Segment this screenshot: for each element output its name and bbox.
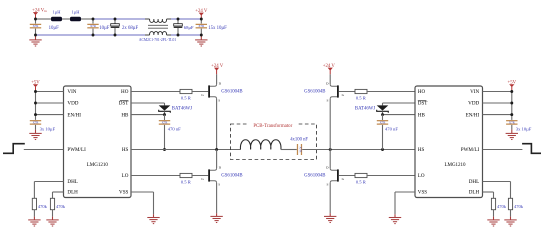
svg-text:DST: DST — [418, 101, 429, 107]
wire +24V node to C5 — [200, 19, 202, 24]
svg-text:VSS: VSS — [418, 190, 428, 196]
wire +5V vertical — [35, 92, 37, 120]
wire U2 EN/HI to +5V — [483, 114, 512, 116]
svg-text:EN/HI: EN/HI — [67, 112, 81, 118]
svg-text:X7R: X7R — [299, 147, 303, 154]
capacitor C8 3x10uF X7R right — [506, 120, 517, 125]
svg-text:PCB-Transformator: PCB-Transformator — [253, 124, 292, 129]
junction C7 HS left — [163, 148, 166, 151]
wire C7 to HS — [164, 125, 166, 150]
junction node B top — [92, 18, 95, 21]
label PCB-Transformator — [248, 122, 298, 127]
wire C10 to HS right node — [302, 149, 330, 151]
wire red stub right bypass ground — [511, 130, 513, 134]
junction node D top — [177, 18, 180, 21]
svg-text:ACM2C1-701-2PL-TL01: ACM2C1-701-2PL-TL01 — [139, 38, 176, 42]
wire L2 to node B — [81, 18, 93, 20]
svg-text:HS: HS — [418, 147, 425, 153]
wire U2 PWM/LI to input — [483, 149, 523, 151]
transistor Q4 GS61004B low-side right — [330, 168, 339, 183]
capacitor C1 10uF X7R — [30, 24, 41, 29]
svg-text:10µF: 10µF — [99, 26, 110, 31]
junction +5V VDD right — [510, 102, 513, 105]
wire DHL vertical right — [510, 182, 512, 199]
svg-text:3x 10µF: 3x 10µF — [516, 127, 532, 132]
junction Vin bottom — [34, 34, 37, 37]
svg-text:BAT46WJ: BAT46WJ — [355, 106, 375, 111]
wire Q4 drain to HS node — [329, 150, 331, 169]
capacitor C10 4x100nF series X7R — [297, 144, 298, 155]
wire U1 DST to D1 — [131, 102, 165, 104]
wire +5V to U1 VDD — [36, 102, 64, 104]
wire C5 to bottom rail — [200, 29, 202, 35]
wire top rail choke to +24V node — [171, 18, 201, 20]
wire C3 to bottom rail — [114, 28, 116, 35]
svg-text:EN/HI: EN/HI — [466, 112, 480, 118]
wire R8 to U2 LO — [367, 175, 415, 177]
svg-text:DST: DST — [119, 101, 130, 107]
wire bottom rail right section — [171, 34, 201, 36]
wire C9 to HS right — [382, 125, 384, 150]
svg-text:S: S — [218, 99, 220, 103]
inductor T1 PCB transformer winding — [240, 140, 281, 150]
svg-text:1µH: 1µH — [52, 10, 61, 15]
ground U2 VSS — [389, 218, 401, 224]
wire red stub R2 ground — [52, 217, 54, 220]
svg-text:X7R: X7R — [90, 24, 97, 28]
wire +5V to U1 EN/HI — [36, 114, 64, 116]
svg-text:X7R: X7R — [380, 120, 387, 124]
resistor R8 0.5R — [355, 173, 367, 177]
svg-text:470k: 470k — [514, 204, 524, 209]
svg-text:X7R: X7R — [198, 24, 205, 28]
wire U1 DHL to R1 — [34, 181, 63, 183]
wire +5V to U1 VIN — [36, 91, 64, 93]
wire U1 DLH to R2 — [53, 191, 64, 193]
wire VSS vertical right — [394, 192, 396, 214]
svg-text:0.5 R: 0.5 R — [181, 179, 192, 184]
wire C1 to bottom rail — [35, 29, 37, 35]
resistor R6 470k — [491, 198, 495, 209]
wire R1 to ground — [33, 210, 35, 217]
svg-text:HS: HS — [122, 147, 129, 153]
capacitor C3 2x68uF — [111, 24, 120, 28]
capacitor C5 15x10uF X7R — [196, 24, 207, 29]
wire red stub to ground left bypass — [35, 130, 37, 134]
svg-text:GS61004B: GS61004B — [304, 90, 325, 95]
svg-text:VIN: VIN — [67, 89, 76, 95]
wire HB node to C9 — [382, 115, 384, 120]
ground Q2 source — [210, 216, 222, 222]
svg-text:HO: HO — [121, 89, 129, 95]
svg-text:470 nF: 470 nF — [385, 127, 398, 132]
ground left bypass cap — [29, 133, 41, 139]
wire Q3 source to HS node — [329, 99, 331, 150]
wire R5 to ground — [510, 210, 512, 217]
wire D2 cathode to HB node right — [382, 111, 384, 114]
diode D1 BAT46WJ — [159, 105, 171, 112]
resistor R7 0.5R — [355, 89, 367, 93]
ground R6 — [487, 220, 499, 226]
svg-text:68µF: 68µF — [184, 25, 194, 30]
inductor L1 1uH — [51, 17, 62, 21]
wire PWM input to U1 PWM/LI — [24, 149, 64, 151]
junction node B bottom — [92, 34, 95, 37]
transistor Q2 GS61004B low-side left — [208, 168, 216, 183]
svg-text:LMG1210: LMG1210 — [87, 163, 109, 168]
wire Q3 gate to R7 — [339, 91, 355, 93]
wire VSS vertical left — [153, 192, 155, 214]
wire bottom rail left section — [36, 34, 146, 36]
svg-text:DLH: DLH — [67, 190, 78, 196]
svg-text:470 nF: 470 nF — [168, 127, 181, 132]
junction node C bottom — [114, 34, 117, 37]
wire R3 to Q1 gate — [192, 91, 208, 93]
node PCB transformer dashed outline — [231, 124, 317, 160]
wire U1 HB to node — [131, 114, 165, 116]
svg-text:S: S — [327, 183, 329, 187]
wire to left filter ground — [35, 35, 37, 40]
svg-text:0.5 R: 0.5 R — [356, 95, 367, 100]
svg-text:S: S — [327, 99, 329, 103]
wire U2 DLH to R6 — [483, 191, 494, 193]
wire U1 LO to R4 — [131, 175, 180, 177]
wire Vin node to L1 — [36, 18, 52, 20]
wire +5V vertical right — [511, 92, 513, 120]
wire U2 VIN to +5V — [483, 91, 512, 93]
wire R6 to ground — [493, 210, 495, 217]
svg-text:X7R: X7R — [33, 24, 40, 28]
power flag +5V left — [31, 80, 40, 87]
junction HB left — [163, 113, 166, 116]
transistor Q1 GS61004B high-side left — [208, 84, 216, 99]
wire node C to C3 — [114, 19, 116, 24]
wire U2 VSS out — [395, 191, 415, 193]
wire U1 HO to R3 — [131, 91, 180, 93]
svg-text:HB: HB — [121, 112, 129, 118]
svg-text:BAT46WJ: BAT46WJ — [172, 106, 192, 111]
node PWM input waveform left — [3, 144, 25, 154]
wire red stub R1 ground — [33, 217, 35, 220]
svg-text:3x 10µF: 3x 10µF — [40, 127, 56, 132]
svg-text:0.5 R: 0.5 R — [181, 95, 192, 100]
junction +24V top — [200, 18, 203, 21]
power flag +24V Q3 — [323, 64, 336, 71]
svg-text:1µH: 1µH — [71, 10, 80, 15]
wire Q4 source down — [329, 183, 331, 213]
resistor R5 470k — [508, 198, 512, 209]
wire node D to C4 — [177, 19, 179, 24]
svg-text:DHL: DHL — [469, 179, 479, 185]
svg-text:0.5 R: 0.5 R — [356, 179, 367, 184]
wire to right filter ground — [200, 35, 202, 40]
resistor R2 470k — [50, 198, 54, 209]
junction HS Q3 Q4 right — [329, 148, 332, 151]
junction +5V EN/HI right — [510, 113, 513, 116]
junction HB right — [381, 113, 384, 116]
wire red stub VSS left — [153, 214, 155, 217]
overline on U2 DST pin label — [418, 99, 427, 101]
svg-text:GS61004B: GS61004B — [304, 174, 325, 179]
svg-text:VDD: VDD — [468, 101, 479, 107]
wire red stub VSS right — [394, 214, 396, 217]
wire red stub R6 ground — [493, 217, 495, 220]
power flag +5V right — [508, 80, 517, 87]
junction HS Q1 Q2 left — [215, 148, 218, 151]
svg-text:470k: 470k — [38, 204, 48, 209]
wire U1 VSS out — [131, 191, 154, 193]
svg-text:15x 10µF: 15x 10µF — [208, 26, 227, 31]
svg-text:LO: LO — [418, 173, 425, 179]
svg-text:GS61004B: GS61004B — [221, 90, 242, 95]
resistor R1 470k — [32, 198, 36, 209]
ground R1 — [28, 220, 40, 226]
diode D2 BAT46WJ — [377, 105, 389, 112]
svg-text:VIN: VIN — [470, 89, 479, 95]
svg-text:DHL: DHL — [67, 179, 77, 185]
ground right filter — [195, 40, 207, 46]
wire D1 cathode to HB node — [164, 111, 166, 114]
node PWM input waveform right — [522, 144, 541, 154]
wire U2 DHL to R5 — [483, 181, 511, 183]
wire Q2 drain to HS node — [216, 150, 218, 169]
wire DST vertical — [164, 103, 166, 105]
wire Q4 gate to R8 — [339, 175, 355, 177]
svg-text:PWM/LI: PWM/LI — [461, 147, 480, 153]
power flag +24V Q1 — [211, 64, 224, 71]
wire Q1 drain to +24V — [216, 74, 218, 84]
op-amp U1 gate driver LMG1210 box — [64, 86, 132, 198]
svg-text:4x100 nF: 4x100 nF — [290, 137, 308, 142]
power flag +24V Vin — [32, 8, 47, 15]
wire C2 to bottom rail — [92, 29, 94, 35]
ground Q4 source — [324, 216, 336, 222]
junction +5V VDD left — [34, 102, 37, 105]
junction +5V VIN left — [34, 90, 37, 93]
svg-text:LMG1210: LMG1210 — [444, 163, 466, 168]
wire winding to C10 — [281, 149, 297, 151]
ground U1 VSS — [147, 218, 159, 224]
ground left filter — [29, 40, 41, 46]
wire R2 to ground — [52, 210, 54, 217]
wire U2 HB to node — [383, 114, 416, 116]
common-mode choke ACM2C1-701-2PL-TL01 — [145, 19, 171, 35]
wire C8 to ground — [511, 125, 513, 130]
wire DLH vertical right — [493, 192, 495, 198]
wire node B to C2 — [92, 19, 94, 24]
capacitor C6 3x10uF X7R left — [30, 120, 41, 125]
power flag +24V output — [195, 9, 208, 16]
op-amp U2 gate driver LMG1210 box — [415, 86, 483, 198]
resistor R4 0.5R — [180, 173, 192, 177]
svg-text:LO: LO — [122, 173, 129, 179]
svg-text:2x 68µF: 2x 68µF — [122, 26, 139, 31]
wire C6 to ground — [35, 125, 37, 130]
svg-text:S: S — [218, 183, 220, 187]
wire DHL vertical — [33, 182, 35, 199]
wire U1 HS to transformer — [131, 149, 241, 151]
wire DST vertical right — [382, 103, 384, 105]
ground R2 — [46, 220, 58, 226]
junction +5V VIN right — [510, 90, 513, 93]
wire R7 to U2 HO — [367, 91, 415, 93]
wire red stub R5 ground — [510, 217, 512, 220]
junction C9 HS right — [381, 148, 384, 151]
wire red stub Q4 ground — [329, 213, 331, 216]
wire R4 to Q2 gate — [192, 175, 208, 177]
wire U2 DST to D2 — [383, 102, 416, 104]
svg-text:470k: 470k — [497, 204, 507, 209]
transistor Q3 GS61004B high-side right — [330, 84, 339, 99]
junction node C top — [114, 18, 117, 21]
capacitor C4 68uF — [174, 24, 183, 28]
junction node D bottom — [177, 34, 180, 37]
wire Q2 source down — [216, 183, 218, 213]
resistor R3 0.5R — [180, 89, 192, 93]
svg-text:VDD: VDD — [67, 101, 78, 107]
svg-text:10µF: 10µF — [49, 26, 60, 31]
wire DLH vertical — [52, 192, 54, 198]
svg-text:HB: HB — [418, 112, 426, 118]
svg-text:HO: HO — [418, 89, 426, 95]
ground R5 — [504, 220, 516, 226]
svg-text:X7R: X7R — [162, 120, 169, 124]
wire HB node to C7 — [164, 115, 166, 120]
wire Vin node to C1 — [35, 19, 37, 24]
wire HS right to U2 — [330, 149, 415, 151]
svg-text:PWM/LI: PWM/LI — [67, 147, 86, 153]
svg-text:DLH: DLH — [469, 190, 480, 196]
overline on U1 DST pin label — [120, 99, 129, 101]
wire C4 to bottom rail — [177, 28, 179, 35]
capacitor C7 470nF X7R left — [159, 120, 170, 125]
junction Vin top — [34, 18, 37, 21]
svg-text:VSS: VSS — [119, 190, 129, 196]
svg-text:X7R: X7R — [33, 120, 40, 124]
svg-text:470k: 470k — [56, 204, 66, 209]
svg-text:GS61004B: GS61004B — [221, 174, 242, 179]
inductor L2 1uH — [70, 17, 81, 21]
wire L1 to L2 — [62, 18, 70, 20]
ground right bypass cap — [506, 133, 518, 139]
wire Q1 source to HS node — [216, 99, 218, 150]
junction +24V bottom — [200, 34, 203, 37]
capacitor C9 470nF X7R right — [377, 120, 388, 125]
svg-text:X7R: X7R — [509, 120, 516, 124]
wire red stub Q2 ground — [216, 213, 218, 216]
wire Q3 drain to +24V — [329, 74, 331, 84]
wire top rail node B to choke — [93, 18, 145, 20]
wire U2 VDD to +5V — [483, 102, 512, 104]
capacitor C2 10uF X7R — [87, 24, 98, 29]
junction +5V EN/HI left — [34, 113, 37, 116]
